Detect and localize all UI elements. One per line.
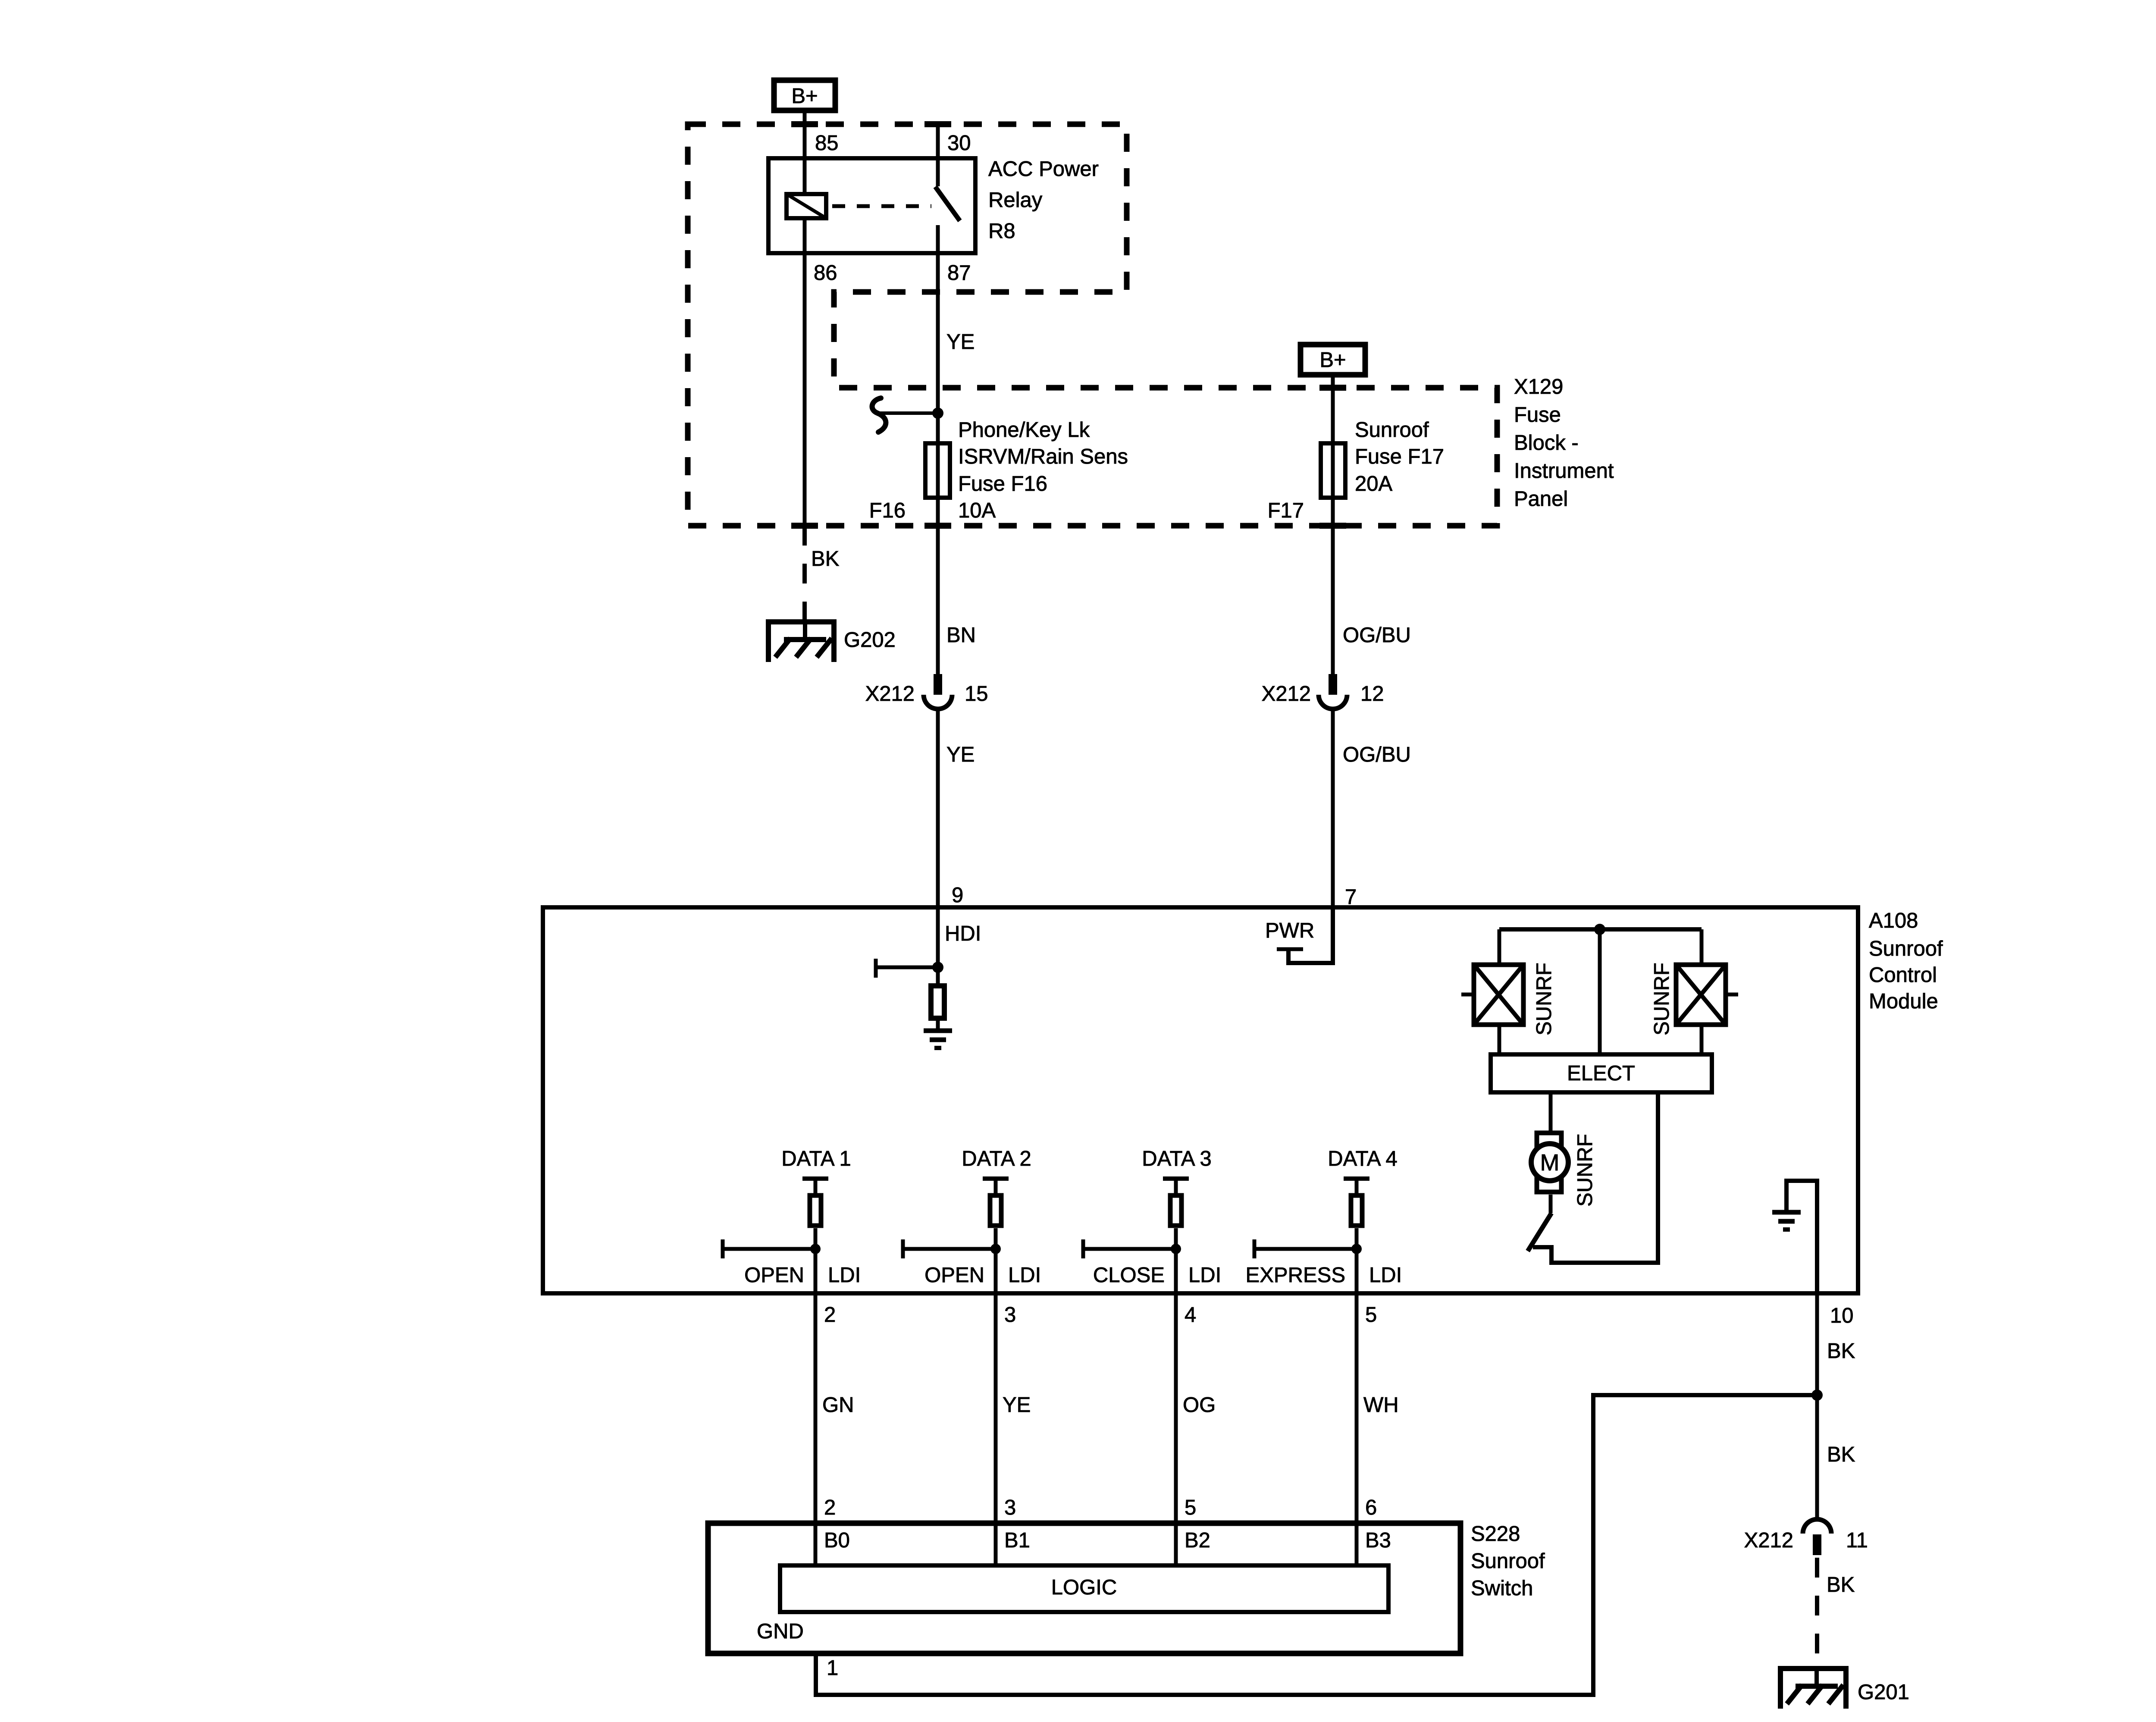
wire F16 to X212-15 — [936, 500, 940, 674]
connector X212 pin 12 — [1319, 674, 1347, 709]
ground return wire from switch pin 1 — [816, 1395, 1817, 1695]
tick pin85 crossing — [791, 121, 818, 127]
dashed BK wire to G201 — [1815, 1558, 1819, 1669]
wire B0 to logic — [814, 1523, 818, 1565]
wire X212-12 to module pin 7 — [1331, 710, 1335, 907]
svg-text:DATA 1: DATA 1 — [781, 1147, 851, 1170]
svg-text:S228: S228 — [1471, 1522, 1520, 1546]
tick pin30 crossing — [924, 121, 951, 127]
internal stub wire — [876, 966, 938, 969]
svg-text:11: 11 — [1846, 1529, 1868, 1552]
svg-text:OPEN: OPEN — [744, 1264, 804, 1287]
coil-contact dashed link — [832, 204, 931, 208]
svg-text:LDI: LDI — [1008, 1264, 1041, 1287]
svg-text:DATA 3: DATA 3 — [1142, 1147, 1212, 1170]
svg-text:SUNRF: SUNRF — [1573, 1134, 1597, 1207]
svg-text:SUNRF: SUNRF — [1650, 963, 1673, 1035]
svg-text:GND: GND — [757, 1620, 804, 1643]
sunroof motor M — [1531, 1133, 1568, 1192]
svg-text:Block -: Block - — [1514, 431, 1579, 455]
relay switch arm — [935, 187, 960, 221]
svg-text:Module: Module — [1869, 990, 1938, 1013]
X129 fuse block label — [1514, 375, 1614, 511]
svg-text:B+: B+ — [1319, 348, 1346, 372]
wire resistor to ground — [936, 1021, 940, 1031]
svg-text:G201: G201 — [1858, 1681, 1909, 1704]
svg-text:ACC Power: ACC Power — [988, 157, 1099, 181]
indicator lamp SUNRF (right) — [1676, 965, 1738, 1025]
wire through F17 — [1331, 441, 1335, 500]
svg-text:5: 5 — [1365, 1303, 1377, 1327]
svg-text:12: 12 — [1360, 682, 1384, 706]
PWR stub cap — [1277, 947, 1303, 951]
wire OG module to switch — [1174, 1293, 1178, 1523]
wire pin9 internal — [936, 907, 940, 983]
svg-text:Control: Control — [1869, 963, 1937, 987]
svg-text:LDI: LDI — [828, 1264, 861, 1287]
svg-text:YE: YE — [946, 330, 975, 354]
motor switch arm — [1528, 1213, 1551, 1251]
svg-text:X212: X212 — [1744, 1529, 1793, 1552]
svg-text:Fuse F16: Fuse F16 — [958, 472, 1047, 496]
wire left lamp to ELECT — [1498, 1027, 1501, 1054]
svg-text:LDI: LDI — [1369, 1264, 1402, 1287]
svg-text:Phone/Key Lk: Phone/Key Lk — [958, 418, 1090, 442]
wire YE module to switch — [994, 1293, 998, 1523]
svg-text:DATA 2: DATA 2 — [962, 1147, 1031, 1170]
svg-text:10A: 10A — [958, 499, 996, 522]
connector X212 pin 11 — [1803, 1519, 1831, 1555]
wire module pin 10 down (BK) — [1815, 1293, 1819, 1520]
sunroof switch S228 box — [708, 1523, 1460, 1653]
wire ELECT to motor — [1549, 1092, 1553, 1131]
svg-text:CLOSE: CLOSE — [1093, 1264, 1165, 1287]
ground G202 — [768, 619, 834, 662]
svg-text:9: 9 — [952, 884, 963, 907]
wire motor to switch arm — [1549, 1195, 1553, 1213]
svg-text:3: 3 — [1004, 1303, 1016, 1327]
svg-text:X129: X129 — [1514, 375, 1563, 398]
svg-text:GN: GN — [822, 1393, 854, 1417]
svg-text:BK: BK — [1827, 1443, 1855, 1466]
wire 87 down (YE) — [936, 255, 940, 441]
svg-text:87: 87 — [947, 261, 971, 285]
wire WH module to switch — [1355, 1293, 1359, 1523]
svg-text:Fuse: Fuse — [1514, 403, 1561, 427]
tick B+2 crossing — [1319, 385, 1346, 391]
svg-text:20A: 20A — [1355, 472, 1393, 496]
svg-text:Relay: Relay — [988, 188, 1043, 212]
relay fixed contact — [936, 225, 940, 255]
switch input branch DATA 4 — [1246, 1147, 1402, 1293]
svg-text:OPEN: OPEN — [924, 1264, 984, 1287]
switch input branch DATA 1 — [723, 1147, 861, 1293]
resistor HDI — [931, 986, 944, 1018]
indicator lamp SUNRF (left) — [1461, 965, 1523, 1025]
svg-text:M: M — [1540, 1150, 1560, 1176]
wire B+ to F17 — [1331, 375, 1335, 441]
svg-text:R8: R8 — [988, 220, 1015, 243]
splice pigtail symbol — [872, 398, 886, 432]
wire through F16 — [936, 441, 940, 500]
svg-text:B0: B0 — [824, 1529, 850, 1552]
svg-text:B1: B1 — [1004, 1529, 1030, 1552]
svg-text:G202: G202 — [844, 628, 896, 652]
svg-text:2: 2 — [824, 1496, 836, 1519]
svg-text:BK: BK — [1827, 1339, 1855, 1363]
svg-text:DATA 4: DATA 4 — [1328, 1147, 1398, 1170]
tick OG/BU crossing — [1319, 523, 1346, 529]
S228 label — [1471, 1522, 1545, 1600]
svg-text:Switch: Switch — [1471, 1577, 1533, 1600]
relay R8 box — [768, 158, 975, 253]
svg-text:F17: F17 — [1268, 499, 1304, 522]
wire B3 to logic — [1355, 1523, 1359, 1565]
svg-text:Fuse F17: Fuse F17 — [1355, 445, 1444, 468]
sunroof control module A108 box — [543, 907, 1858, 1293]
wire 86 down (BK) — [803, 255, 807, 526]
wire rail to left lamp — [1498, 929, 1501, 963]
fuse F17 — [1321, 443, 1345, 498]
svg-text:30: 30 — [947, 132, 971, 155]
fuse F16 description — [958, 418, 1128, 522]
svg-text:YE: YE — [946, 743, 975, 766]
junction on YE wire — [932, 408, 943, 419]
junction BK/ground return — [1811, 1390, 1823, 1401]
svg-text:EXPRESS: EXPRESS — [1246, 1264, 1345, 1287]
module A108 label — [1869, 909, 1943, 1013]
svg-text:Panel: Panel — [1514, 487, 1568, 511]
wire 30 into relay — [936, 124, 940, 186]
wire coil to 86 — [803, 220, 807, 255]
svg-text:6: 6 — [1365, 1496, 1377, 1519]
svg-text:1: 1 — [827, 1656, 838, 1680]
svg-text:OG: OG — [1183, 1393, 1216, 1417]
svg-text:86: 86 — [814, 261, 837, 285]
svg-text:B+: B+ — [791, 85, 818, 108]
wire rail to ELECT — [1598, 929, 1602, 1054]
wire B+ to relay pin 85 — [803, 110, 807, 156]
B+ battery feed box (sunroof fuse) — [1300, 345, 1365, 375]
svg-text:LDI: LDI — [1188, 1264, 1221, 1287]
PWR internal connection symbol — [1288, 907, 1333, 963]
svg-text:2: 2 — [824, 1303, 836, 1327]
svg-text:4: 4 — [1185, 1303, 1196, 1327]
relay coil — [787, 194, 826, 218]
svg-text:10: 10 — [1830, 1304, 1854, 1327]
wire X212-15 to module pin 9 — [936, 710, 940, 907]
svg-text:ELECT: ELECT — [1567, 1062, 1635, 1085]
svg-text:B2: B2 — [1185, 1529, 1210, 1552]
svg-text:Instrument: Instrument — [1514, 459, 1614, 483]
svg-text:LOGIC: LOGIC — [1051, 1576, 1117, 1599]
svg-text:7: 7 — [1345, 885, 1357, 909]
B+ battery feed box (relay) — [774, 80, 835, 110]
svg-text:BK: BK — [1827, 1573, 1855, 1597]
svg-text:F16: F16 — [869, 499, 906, 522]
svg-text:BN: BN — [946, 624, 976, 647]
dashed BK wire to G202 — [802, 526, 807, 622]
svg-text:BK: BK — [811, 547, 840, 571]
tick BN crossing — [924, 523, 951, 529]
junction HDI — [932, 962, 943, 973]
svg-text:Sunroof: Sunroof — [1355, 418, 1429, 442]
internal ground branch (pin 10) — [1786, 1181, 1817, 1293]
svg-text:YE: YE — [1003, 1393, 1031, 1417]
ACC Power Relay R8 label — [988, 157, 1099, 243]
svg-text:5: 5 — [1185, 1496, 1196, 1519]
ground G201 — [1780, 1666, 1846, 1709]
wire 85 to coil — [803, 156, 807, 192]
svg-text:WH: WH — [1363, 1393, 1399, 1417]
connector X212 pin 15 — [924, 674, 952, 709]
pigtail to junction wire — [879, 411, 938, 415]
LOGIC block — [780, 1565, 1388, 1612]
internal ground (right) — [1772, 1212, 1801, 1230]
internal stub tick — [874, 959, 878, 978]
svg-text:SUNRF: SUNRF — [1532, 963, 1556, 1035]
svg-text:15: 15 — [965, 682, 988, 706]
wire right lamp to ELECT — [1700, 1027, 1704, 1054]
fuse F17 description — [1355, 418, 1444, 496]
svg-text:HDI: HDI — [945, 922, 981, 945]
switch input branch DATA 2 — [903, 1147, 1041, 1293]
svg-text:OG/BU: OG/BU — [1343, 624, 1411, 647]
svg-text:ISRVM/Rain Sens: ISRVM/Rain Sens — [958, 445, 1128, 468]
svg-text:X212: X212 — [1262, 682, 1311, 706]
wire B1 to logic — [994, 1523, 998, 1565]
wire rail to right lamp — [1700, 929, 1704, 963]
switch input branch DATA 3 — [1083, 1147, 1221, 1293]
svg-text:85: 85 — [815, 132, 839, 155]
wire GN module to switch — [814, 1293, 818, 1523]
ELECT block — [1491, 1054, 1712, 1092]
motor switch contact and return wire — [1533, 1092, 1658, 1263]
svg-text:Sunroof: Sunroof — [1869, 937, 1943, 960]
svg-text:B3: B3 — [1365, 1529, 1391, 1552]
wire B2 to logic — [1174, 1523, 1178, 1565]
X129 fuse block dashed outline — [688, 124, 1497, 526]
svg-text:Sunroof: Sunroof — [1471, 1549, 1545, 1573]
svg-text:X212: X212 — [865, 682, 915, 706]
lamp supply rail — [1499, 927, 1702, 932]
svg-text:3: 3 — [1004, 1496, 1016, 1519]
svg-text:A108: A108 — [1869, 909, 1918, 932]
wire F17 to X212-12 — [1331, 500, 1335, 674]
tick BK crossing — [791, 523, 818, 529]
fuse F16 — [925, 443, 950, 498]
svg-text:PWR: PWR — [1265, 919, 1314, 942]
junction lamp rail — [1594, 924, 1605, 935]
internal ground (HDI) — [924, 1031, 952, 1048]
svg-text:OG/BU: OG/BU — [1343, 743, 1411, 766]
